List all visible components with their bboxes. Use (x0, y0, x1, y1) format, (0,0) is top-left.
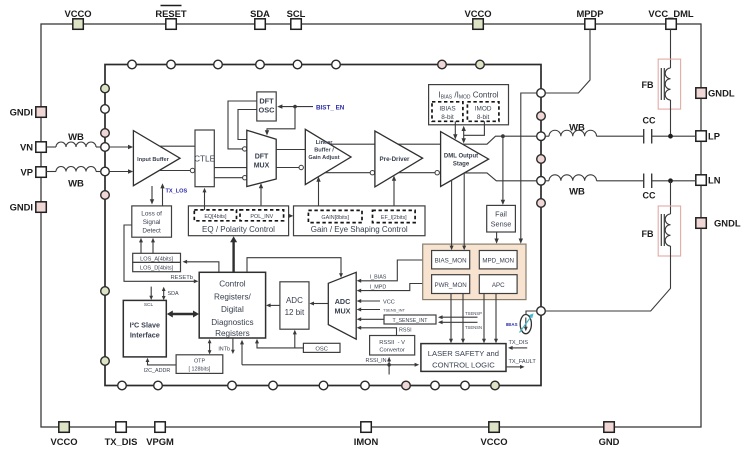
svg-text:ADC: ADC (335, 297, 351, 306)
svg-text:Input Buffer: Input Buffer (137, 157, 170, 163)
wire OSC to control regs and ADC (255, 330, 303, 348)
svg-text:WB: WB (569, 123, 585, 134)
svg-text:OSC: OSC (258, 106, 275, 115)
svg-text:CONTROL LOGIC: CONTROL LOGIC (432, 361, 495, 370)
pad MPDP (576, 8, 603, 29)
svg-text:I_MPD: I_MPD (370, 285, 387, 291)
block Loss of Signal Detect (132, 206, 172, 237)
wire VN to input buffer (109, 145, 133, 149)
amplifier Pre-Driver (375, 131, 423, 187)
svg-text:EF_I[2bits]: EF_I[2bits] (381, 215, 407, 221)
wire SCL into I2C (149, 287, 153, 300)
svg-text:Convertor: Convertor (379, 348, 405, 354)
capacitor CC (LN) (643, 174, 656, 201)
pad GNDL (upper-right) (696, 88, 735, 99)
wire EQ control to gain control (289, 214, 294, 218)
wire I_MPD to ADC MUX (357, 284, 432, 293)
svg-text:IBIAS: IBIAS (506, 322, 518, 327)
die outline (105, 65, 541, 386)
block LASER SAFETY and CONTROL LOGIC (421, 344, 506, 372)
svg-text:SDA: SDA (250, 8, 270, 19)
wire TSENS_INT to ADC MUX (357, 307, 406, 312)
svg-text:ADC: ADC (286, 296, 303, 305)
wire input buffer to CTLE (bottom, inverted) (159, 168, 195, 172)
svg-text:I_BIAS: I_BIAS (370, 274, 387, 280)
svg-text:LASER SAFETY and: LASER SAFETY and (428, 349, 499, 358)
svg-text:TSENSN: TSENSN (465, 325, 482, 330)
wire MPD to monitor block (519, 93, 537, 244)
svg-text:TX_DIS: TX_DIS (105, 436, 138, 447)
wire VCC_DML to FB (670, 29, 672, 68)
block T_SENSE_INT (384, 315, 436, 324)
register EF_I[2bits] (373, 210, 416, 222)
pad VCCO (bottom-left) (50, 422, 77, 447)
wire DML output lower (to LN) (464, 173, 536, 181)
pad VCCO (top-mid) (464, 8, 491, 29)
amplifier Linear Buffer / Gain Adjust (305, 129, 351, 184)
svg-text:Registers: Registers (215, 329, 250, 338)
svg-text:EQ[4bits]: EQ[4bits] (204, 214, 227, 220)
pad GNDI (lower-left) (10, 202, 47, 213)
pad IMON (354, 422, 379, 447)
svg-text:EQ / Polarity Control: EQ / Polarity Control (202, 225, 275, 234)
block Gain / Eye Shaping Control (294, 206, 426, 236)
pad VP (20, 167, 46, 178)
svg-text:CC: CC (643, 116, 656, 126)
wire CTLE to DFT MUX (bottom, inverted) (214, 176, 247, 180)
wire pre-driver to DML (bottom, inverted) (399, 171, 440, 175)
wire ADC to control regs (266, 303, 280, 307)
wire TSENSN (438, 320, 482, 330)
block OTP [128bits] (176, 355, 223, 374)
wire RSSI_IN (240, 340, 419, 375)
pad LP (696, 131, 720, 142)
wire FB lower return to die (545, 246, 670, 311)
svg-text:TSENSP: TSENSP (465, 311, 482, 316)
svg-text:8-bit: 8-bit (441, 114, 454, 121)
die bond pads bottom edge (118, 381, 500, 390)
svg-text:VPGM: VPGM (146, 436, 174, 447)
svg-text:RSSI: RSSI (399, 328, 412, 334)
current source IBIAS (506, 311, 537, 334)
ferrite bead FB (upper) (642, 59, 681, 109)
svg-text:Stage: Stage (453, 162, 470, 168)
svg-text:GND: GND (599, 436, 620, 447)
block ADC 12 bit (280, 282, 309, 329)
wire control regs to LOS registers (183, 260, 219, 273)
package outline (41, 24, 701, 427)
wire-bond WB label (VP) (68, 179, 84, 190)
wire EF_I control to pre-driver (392, 176, 396, 211)
wire TX_LOS (160, 183, 187, 206)
svg-text:MUX: MUX (335, 307, 351, 316)
svg-text:VP: VP (20, 167, 33, 178)
register GAIN[8bits] (308, 210, 362, 222)
wire LOS_A to loss detect (right) (151, 238, 155, 254)
svg-text:Signal: Signal (143, 219, 161, 226)
svg-text:TX_DIS: TX_DIS (509, 340, 529, 346)
svg-text:GNDL: GNDL (714, 218, 741, 229)
svg-text:OTP: OTP (194, 358, 205, 364)
svg-text:T_SENSE_INT: T_SENSE_INT (393, 318, 429, 324)
block Fail Sense (487, 205, 516, 232)
svg-text:GNDL: GNDL (708, 88, 735, 99)
svg-text:TX_LOS: TX_LOS (166, 189, 188, 195)
block CTLE (194, 130, 215, 187)
svg-text:Interface: Interface (130, 331, 160, 340)
wire linear buffer to pre-driver (bottom, inverted) (325, 171, 375, 175)
wire VP input (46, 167, 100, 172)
register LOS_A[4bits] (133, 253, 181, 262)
die bond pads right edge (537, 89, 546, 316)
die bond pads left edge (101, 84, 110, 365)
svg-text:SCL: SCL (144, 302, 154, 308)
block IBIAS/IMOD Control (429, 85, 509, 125)
die bond pads top edge (128, 60, 485, 69)
svg-text:Pre-Driver: Pre-Driver (380, 156, 411, 163)
wire DFT MUX to linear buffer (top) (276, 149, 305, 151)
amplifier DML Output Stage (441, 132, 489, 187)
svg-text:Registers/: Registers/ (214, 292, 252, 301)
wire VCC to ADC MUX (357, 299, 395, 305)
svg-text:Buffer /: Buffer / (314, 148, 334, 154)
wire monitor to laser safety 1 (449, 294, 453, 344)
svg-text:POL_INV: POL_INV (250, 214, 273, 220)
wire DML/IMOD feedback (bidirectional) (462, 121, 485, 143)
svg-text:DFT: DFT (255, 154, 269, 161)
svg-text:Control: Control (219, 280, 246, 289)
svg-text:Linear: Linear (316, 140, 334, 146)
wire INTb (218, 338, 234, 354)
wire CTLE to DFT MUX (top) (214, 167, 247, 169)
wire DFT MUX to linear buffer (bottom, inverted) (276, 165, 303, 169)
wire-bond WB label (LN) (569, 187, 585, 198)
amplifier Input Buffer (133, 131, 180, 186)
svg-text:LOS_D[4bits]: LOS_D[4bits] (140, 266, 174, 272)
svg-text:Digital: Digital (221, 305, 244, 314)
pad SCL (287, 8, 306, 29)
block Control Registers / Digital Diagnostics Registers (199, 272, 265, 338)
svg-text:VCC_DML: VCC_DML (648, 8, 694, 19)
wire I2C_ADDR from OTP (144, 358, 176, 374)
wire DFT OSC feedback inner (238, 110, 257, 140)
pad RESET (155, 6, 187, 30)
svg-text:SDA: SDA (168, 291, 179, 297)
svg-text:CTLE: CTLE (194, 155, 215, 164)
svg-text:Gain Adjust: Gain Adjust (308, 155, 339, 161)
register LOS_D[4bits] (133, 262, 181, 271)
svg-text:LOS_A[4bits]: LOS_A[4bits] (140, 256, 173, 262)
block BIAS_MON (432, 251, 470, 269)
pad GNDL (lower-right) (696, 218, 741, 229)
wire BIST_EN (265, 104, 345, 135)
svg-text:OSC: OSC (315, 347, 328, 353)
wire TSENSP (438, 311, 482, 319)
svg-text:BIAS_MON: BIAS_MON (435, 258, 467, 265)
svg-text:VCCO: VCCO (480, 436, 507, 447)
wire-bond WB label (LP) (569, 123, 585, 134)
register EQ[4bits] (194, 210, 236, 221)
pad VCC_DML (648, 8, 694, 29)
bus control regs to EQ control (230, 236, 237, 272)
svg-text:MPDP: MPDP (576, 8, 603, 19)
svg-text:I2C_ADDR: I2C_ADDR (144, 368, 171, 374)
wire IBIAS to DML (453, 121, 457, 139)
svg-text:8-bit: 8-bit (477, 114, 490, 121)
mux DFT MUX (247, 130, 276, 186)
svg-text:Detect: Detect (142, 228, 161, 235)
block OSC (303, 343, 340, 352)
svg-text:IBIAS: IBIAS (439, 106, 455, 113)
svg-text:VCC: VCC (383, 299, 395, 305)
svg-text:GNDI: GNDI (10, 107, 33, 118)
svg-text:DFT: DFT (259, 97, 274, 106)
svg-text:MUX: MUX (254, 163, 270, 170)
wire DFT OSC feedback outer (228, 101, 257, 151)
svg-text:Fail: Fail (495, 210, 507, 219)
svg-text:SCL: SCL (287, 8, 306, 19)
wire fail sense to monitor block (494, 232, 498, 244)
svg-text:12 bit: 12 bit (285, 308, 305, 317)
wire-bond WB label (VN) (68, 132, 84, 143)
svg-text:LP: LP (708, 131, 720, 142)
wire DML output upper (to LP) (463, 134, 537, 144)
wire LN junction to FB (lower) (670, 181, 672, 214)
wire MPDP input (545, 29, 590, 93)
wire LP line with wire-bond (545, 130, 643, 136)
wire VN input (46, 142, 100, 147)
wire LN line with wire-bond (545, 175, 643, 181)
svg-text:GAIN[8bits]: GAIN[8bits] (321, 215, 349, 221)
svg-text:VN: VN (20, 142, 33, 153)
svg-text:IMOD: IMOD (475, 106, 492, 113)
wire RESETb to control registers (124, 225, 198, 283)
svg-text:[ 128bits]: [ 128bits] (189, 366, 211, 372)
svg-text:RESET: RESET (155, 8, 187, 19)
mux ADC MUX (328, 272, 356, 339)
block PWR_MON (432, 275, 470, 294)
svg-text:TX_FAULT: TX_FAULT (509, 359, 537, 365)
wire SDA into I2C (bidirectional) (162, 287, 179, 300)
svg-text:LN: LN (708, 175, 721, 186)
capacitor CC (LP) (643, 116, 656, 144)
svg-text:IMON: IMON (354, 436, 379, 447)
wire I_BIAS to ADC MUX (357, 260, 432, 283)
pad LN (696, 175, 721, 186)
block MPD_MON (479, 251, 517, 269)
svg-text:VCCO: VCCO (50, 436, 77, 447)
block APC (479, 275, 517, 294)
svg-text:GNDI: GNDI (10, 202, 33, 213)
svg-text:PWR_MON: PWR_MON (434, 282, 466, 289)
wire GAIN control to linear buffer (316, 177, 320, 211)
pad TX_DIS (bottom) (105, 422, 138, 447)
block I2C Slave Interface (123, 300, 166, 357)
svg-text:VCCO: VCCO (464, 8, 491, 19)
svg-text:CC: CC (643, 191, 656, 201)
svg-text:Sense: Sense (491, 220, 512, 229)
pad VN (20, 142, 46, 153)
wire CC to LN pad (652, 178, 696, 183)
svg-text:TSENS_INT: TSENS_INT (383, 307, 406, 312)
block RSSII-V Convertor (370, 336, 415, 356)
wire RSSI to ADC MUX (357, 326, 412, 336)
svg-text:RSSII - V: RSSII - V (379, 340, 405, 346)
svg-text:VCCO: VCCO (64, 8, 91, 19)
ferrite bead FB (lower) (642, 206, 681, 256)
svg-text:WB: WB (68, 132, 84, 143)
svg-text:RESETb: RESETb (170, 275, 193, 281)
wire T_SENSE_INT to ADC MUX (357, 317, 384, 321)
wire LOS_A to loss detect (left) (139, 238, 143, 254)
svg-text:Loss of: Loss of (141, 211, 162, 218)
register IMOD 8-bit (467, 102, 499, 122)
wire DML tap to BIAS_MON (right) (462, 173, 466, 250)
wire linear buffer to pre-driver and DML (top) (330, 143, 441, 145)
bus control regs to OTP (bidirectional) (208, 339, 212, 355)
svg-text:WB: WB (569, 187, 585, 198)
svg-text:I²C Slave: I²C Slave (130, 321, 160, 330)
wire CC to LP pad (652, 134, 696, 139)
pad VPGM (146, 422, 174, 447)
wire control regs to ADC MUX (247, 258, 343, 278)
svg-text:FB: FB (642, 80, 654, 90)
wire DML tap to BIAS_MON (left) (450, 180, 454, 250)
wire monitor to laser safety 4 (494, 294, 498, 344)
wire FB to LP junction (670, 100, 672, 134)
svg-text:Diagnostics: Diagnostics (211, 318, 253, 327)
wire EQ to CTLE (203, 188, 207, 210)
wire TX_FAULT output (506, 359, 536, 369)
wire VP to input buffer (109, 169, 133, 173)
svg-text:FB: FB (642, 229, 654, 239)
svg-text:Gain / Eye Shaping Control: Gain / Eye Shaping Control (311, 225, 408, 234)
block DFT OSC (257, 92, 276, 121)
wire ADC MUX to ADC (309, 302, 328, 306)
wire TX_DIS input (508, 340, 528, 350)
wire input buffer to CTLE (top) (160, 145, 195, 147)
pad GND (599, 422, 620, 447)
pad VCCO (top-left) (64, 8, 91, 29)
svg-text:APC: APC (492, 282, 505, 289)
pad VCCO (bottom-mid) (480, 422, 507, 447)
bus I2C to control regs (bidirectional) (167, 311, 199, 318)
svg-text:INTb: INTb (218, 347, 230, 353)
register POL_INV (240, 210, 284, 221)
pad SDA (250, 8, 270, 29)
wire DML tap to fail sense (501, 136, 505, 205)
wire POL_INV to DFT MUX (259, 183, 263, 210)
wire monitor to laser safety 2 (461, 294, 465, 344)
pad GNDI (upper-left) (10, 107, 47, 118)
wire monitor to laser safety 3 (482, 294, 486, 344)
block EQ / Polarity Control (188, 206, 288, 236)
register IBIAS 8-bit (432, 102, 463, 122)
svg-text:MPD_MON: MPD_MON (482, 258, 514, 265)
svg-text:DML Output: DML Output (444, 154, 478, 160)
svg-text:BIST_ EN: BIST_ EN (316, 104, 345, 111)
svg-text:WB: WB (68, 179, 84, 190)
wire input buffer to loss-of-signal detect (150, 186, 154, 205)
svg-text:RSSI_IN: RSSI_IN (366, 358, 387, 364)
block monitor container (423, 244, 526, 300)
